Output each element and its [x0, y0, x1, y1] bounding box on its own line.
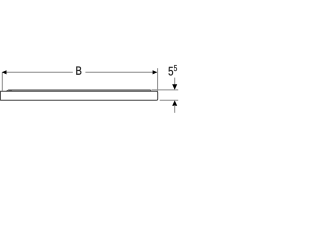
extension line right — [157, 68, 159, 91]
up arrow stem — [174, 105, 176, 113]
label B — [76, 67, 81, 75]
arrowhead left — [2, 70, 7, 74]
shower tray profile outline — [0, 91, 157, 100]
tray top surface line — [6, 90, 151, 91]
dimension line B — [2, 71, 157, 73]
extension line top (height dim) — [152, 89, 179, 91]
extension line left — [1, 72, 3, 91]
up arrowhead — [172, 100, 177, 105]
label superscript 5 — [174, 65, 177, 71]
arrowhead right — [153, 70, 158, 74]
extension line bottom (height dim) — [160, 99, 179, 101]
drain mark on surface — [9, 90, 12, 92]
down arrowhead — [172, 84, 177, 89]
down arrow stem — [174, 78, 176, 85]
label 5 — [169, 67, 174, 76]
